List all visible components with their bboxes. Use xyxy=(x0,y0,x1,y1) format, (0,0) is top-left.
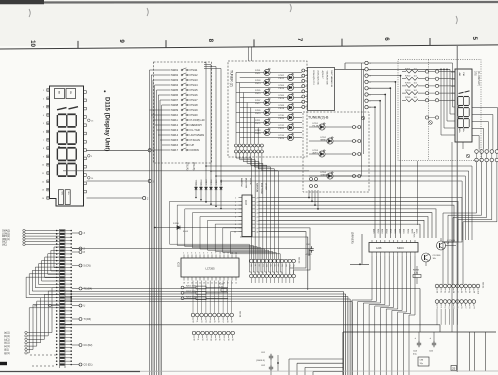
svg-text:R202 100k: R202 100k xyxy=(186,291,197,293)
resistor R201 100k xyxy=(181,286,184,289)
IC02 pins top xyxy=(183,255,185,259)
display digit 8 (second) xyxy=(57,114,76,127)
wire stubs from ruler to TUNER(2) xyxy=(248,47,250,62)
transistor Q7/02 xyxy=(422,253,431,262)
svg-text:SW15: SW15 xyxy=(171,138,179,142)
svg-text:(c)(1): (c)(1) xyxy=(4,339,10,341)
transistor Q7/01 xyxy=(437,241,446,250)
FL display outline xyxy=(455,69,472,142)
svg-text:KD03: KD03 xyxy=(206,179,208,185)
svg-text:AUTO/MAN: AUTO/MAN xyxy=(191,133,205,137)
display D115 top indicator boxes xyxy=(55,89,65,99)
svg-text:BA/BRA4: BA/BRA4 xyxy=(240,178,243,188)
TUNER(3)-B bottom pad wires to bus xyxy=(308,190,310,198)
IC U1 control block xyxy=(308,68,335,111)
svg-text:6: 6 xyxy=(370,95,371,97)
wire driver board L edge xyxy=(362,234,369,264)
IC03 pins right with bus to driver xyxy=(252,197,256,199)
FL display left pin verticals from top rows xyxy=(452,63,454,107)
svg-text:KD05: KD05 xyxy=(411,229,413,234)
svg-text:SW17: SW17 xyxy=(171,148,179,152)
svg-text:R201 100k: R201 100k xyxy=(186,286,197,288)
svg-text:(NC): (NC) xyxy=(2,242,7,244)
svg-text:K4: K4 xyxy=(209,321,211,323)
FL digit 1 xyxy=(459,92,464,93)
svg-text:7: 7 xyxy=(370,101,371,103)
svg-text:11: 11 xyxy=(223,253,225,255)
svg-text:S5: S5 xyxy=(214,339,216,341)
FL digit 8 b xyxy=(458,108,469,117)
svg-text:PS/14: PS/14 xyxy=(279,88,285,90)
svg-text:PS/16: PS/16 xyxy=(191,93,199,97)
svg-text:MEMORY: MEMORY xyxy=(191,123,203,127)
svg-text:SW09: SW09 xyxy=(171,108,179,112)
svg-text:K0: K0 xyxy=(191,321,193,323)
svg-text:PS/21: PS/21 xyxy=(255,123,261,125)
svg-text:D7/09: D7/09 xyxy=(255,110,261,112)
svg-text:MHz: MHz xyxy=(60,192,62,196)
row F exit wires xyxy=(436,309,438,325)
display digit 1 (first) xyxy=(57,108,67,110)
svg-text:K1: K1 xyxy=(196,321,198,323)
svg-text:K8: K8 xyxy=(226,321,228,323)
svg-text:R7/06: R7/06 xyxy=(413,232,415,238)
bus wire y325 xyxy=(65,324,440,326)
svg-text:TUNER(3)-B: TUNER(3)-B xyxy=(308,116,329,120)
svg-text:TUNER (2): TUNER (2) xyxy=(230,70,234,87)
svg-text:C1740S: C1740S xyxy=(447,240,455,242)
svg-text:KD05: KD05 xyxy=(183,231,189,233)
svg-text:AM: AM xyxy=(458,73,461,76)
screw mark driver xyxy=(429,121,433,125)
svg-text:IC02: IC02 xyxy=(177,262,179,268)
svg-text:P-15/P(1-20: P-15/P(1-20 xyxy=(191,118,206,122)
svg-text:PS/17: PS/17 xyxy=(191,98,199,102)
IC02 bottom pin wires to connector xyxy=(192,281,194,314)
svg-text:6: 6 xyxy=(203,253,204,255)
svg-text:E2: E2 xyxy=(444,291,446,293)
svg-text:KD05: KD05 xyxy=(389,229,391,234)
wire dotted-box stub down xyxy=(417,161,419,225)
svg-text:4(2%3.7: 4(2%3.7 xyxy=(321,71,323,80)
svg-text:14: 14 xyxy=(235,253,237,255)
svg-text:PS/13: PS/13 xyxy=(255,83,261,85)
svg-text:kHz: kHz xyxy=(462,129,464,133)
svg-text:1: 1 xyxy=(183,253,184,255)
svg-text:2: 2 xyxy=(235,201,236,203)
svg-text:5: 5 xyxy=(235,213,236,215)
svg-text:PS/15: PS/15 xyxy=(255,93,261,95)
wire nested corners bottom center xyxy=(289,358,343,360)
svg-text:SW03: SW03 xyxy=(171,78,179,82)
svg-text:17: 17 xyxy=(257,209,259,211)
svg-text:MULTI/SW: MULTI/SW xyxy=(245,178,247,188)
wire display pin to pad node 1 xyxy=(87,149,149,151)
switch block frame xyxy=(154,62,212,163)
svg-text:KD03: KD03 xyxy=(402,229,404,234)
svg-text:S2: S2 xyxy=(201,339,203,341)
svg-text:E10: E10 xyxy=(476,291,478,294)
svg-text:8: 8 xyxy=(211,253,212,255)
svg-text:MULTI/SW: MULTI/SW xyxy=(260,183,262,194)
svg-text:C/M: C/M xyxy=(420,360,424,362)
svg-text:13: 13 xyxy=(231,253,233,255)
svg-text:MLP YAMAGUW: MLP YAMAGUW xyxy=(330,71,333,88)
IC IC02 xyxy=(181,258,239,277)
svg-text:20: 20 xyxy=(257,198,259,200)
IC05 bottom wires to power block xyxy=(352,256,372,375)
svg-text:(TBL/B): (TBL/B) xyxy=(192,162,195,170)
connector CN/23 row B xyxy=(250,274,254,278)
svg-text:3: 3 xyxy=(235,205,236,207)
svg-text:K2: K2 xyxy=(200,321,202,323)
svg-text:STEREO: STEREO xyxy=(321,175,330,177)
wire switch commons to driver right xyxy=(206,166,472,240)
component crystal xyxy=(418,357,429,366)
svg-text:CG (D1): CG (D1) xyxy=(84,364,93,367)
svg-text:D7S: D7S xyxy=(474,71,477,76)
svg-text:SW11: SW11 xyxy=(171,118,178,122)
svg-text:K3: K3 xyxy=(204,321,206,323)
svg-text:Vol: Vol xyxy=(34,306,38,308)
svg-text:F2: F2 xyxy=(444,307,446,309)
svg-text:TI (D3): TI (D3) xyxy=(84,318,92,321)
svg-text:PS/11: PS/11 xyxy=(255,73,261,75)
svg-text:R7/08: R7/08 xyxy=(413,270,420,272)
wire display pin to pad node 2 xyxy=(87,197,143,199)
svg-text:SW10: SW10 xyxy=(171,113,179,117)
diode D7/60 xyxy=(154,227,242,229)
ruler line xyxy=(0,45,498,49)
svg-text:2: 2 xyxy=(187,253,188,255)
svg-text:D7/02: D7/02 xyxy=(279,75,285,77)
svg-text:PS/24: PS/24 xyxy=(279,138,285,140)
page number box 25 xyxy=(451,366,457,371)
svg-text:SW16: SW16 xyxy=(171,143,179,147)
svg-text:D7/07: D7/07 xyxy=(255,100,261,102)
TUNER(3)-B block frame xyxy=(303,112,369,192)
svg-text:SW14: SW14 xyxy=(171,133,179,137)
svg-text:S9: S9 xyxy=(231,339,233,341)
screw mark pad grid xyxy=(466,154,470,158)
display digit 8 (third) xyxy=(57,132,76,145)
svg-text:FL.TGR: FL.TGR xyxy=(191,128,200,132)
svg-text:SW04: SW04 xyxy=(171,83,179,87)
display driver dotted frame xyxy=(398,60,481,161)
FL display right pins fan down xyxy=(472,108,498,150)
svg-text:1248: 1248 xyxy=(376,247,382,250)
TUNER(2) bottom pads row2 xyxy=(235,150,238,153)
svg-text:PS/11: PS/11 xyxy=(191,68,198,72)
pad grid row2 xyxy=(475,158,479,162)
connector board box edge xyxy=(240,237,308,290)
svg-text:SW01: SW01 xyxy=(171,68,179,72)
FL display bottom pin xyxy=(462,142,464,149)
svg-text:25: 25 xyxy=(195,283,197,285)
svg-text:KD05: KD05 xyxy=(216,179,218,185)
svg-text:10: 10 xyxy=(234,232,236,234)
svg-text:PS/15: PS/15 xyxy=(191,88,199,92)
IC03 pins left with staircase to connector xyxy=(239,197,243,199)
TUNER(2) pads exit wires down xyxy=(236,153,251,259)
svg-text:64016: 64016 xyxy=(397,247,404,250)
wires TUNER(3)-B pads up to pad column xyxy=(360,63,363,176)
svg-text:D7/60: D7/60 xyxy=(173,223,180,225)
svg-text:SW12: SW12 xyxy=(171,123,179,127)
svg-text:CN/24: CN/24 xyxy=(239,311,241,318)
svg-text:PM: PM xyxy=(69,91,71,94)
display unit D115 outline xyxy=(50,86,84,206)
connector row F xyxy=(435,300,439,304)
wire ladder long y248 xyxy=(72,248,309,250)
capacitor C05 electrolytic xyxy=(432,341,436,347)
svg-text:12: 12 xyxy=(227,253,229,255)
svg-text:D7/08: D7/08 xyxy=(279,105,285,107)
TUNER(2) left bus verticals xyxy=(235,73,237,144)
svg-text:MHz: MHz xyxy=(458,129,460,133)
svg-text:SW06: SW06 xyxy=(171,93,179,97)
svg-text:(e)(1): (e)(1) xyxy=(4,346,10,348)
svg-text:23: 23 xyxy=(203,283,205,285)
capacitor C/05 xyxy=(309,246,313,252)
svg-text:4: 4 xyxy=(370,82,371,84)
svg-text:E3: E3 xyxy=(448,291,450,293)
svg-text:19: 19 xyxy=(257,201,259,203)
crosshatch horizontals xyxy=(368,62,452,64)
IC05 pins below xyxy=(371,252,373,256)
svg-text:PS/12: PS/12 xyxy=(279,78,285,80)
svg-text:KD04: KD04 xyxy=(385,229,387,234)
svg-text:7: 7 xyxy=(207,253,208,255)
connector CN/21 row E xyxy=(435,284,439,288)
svg-text:3: 3 xyxy=(370,76,371,78)
svg-text:25: 25 xyxy=(452,367,456,371)
svg-text:LGM(1): LGM(1) xyxy=(2,233,10,235)
svg-text:DOWN: DOWN xyxy=(191,148,199,152)
svg-text:14: 14 xyxy=(257,220,259,222)
svg-text:K5: K5 xyxy=(213,321,215,323)
svg-text:(FL DISPLAY): (FL DISPLAY) xyxy=(477,71,480,86)
TUNER(3)-B right pads xyxy=(353,126,356,129)
svg-text:PS/19: PS/19 xyxy=(191,108,199,112)
FL digit 8 c xyxy=(458,119,469,128)
svg-text:PS/18: PS/18 xyxy=(279,108,285,110)
svg-text:MEMO: MEMO xyxy=(321,140,328,142)
wire vertical x452 xyxy=(451,142,453,332)
connector CN/24 row C xyxy=(191,313,195,317)
svg-text:6: 6 xyxy=(235,217,236,219)
svg-text:28: 28 xyxy=(183,283,185,285)
svg-text:S7: S7 xyxy=(223,339,225,341)
svg-text:(DRIVER): (DRIVER) xyxy=(351,232,355,244)
svg-text:(b)(4): (b)(4) xyxy=(4,336,10,338)
bus wires y291-302 xyxy=(65,291,344,293)
svg-text:E8: E8 xyxy=(468,291,470,293)
svg-text:D7A-6(25.07.0: D7A-6(25.07.0 xyxy=(312,71,315,86)
TUNER(2) block frame xyxy=(228,61,307,157)
svg-text:PS/14: PS/14 xyxy=(191,83,199,87)
svg-text:1: 1 xyxy=(370,63,371,65)
ladder staircase lower xyxy=(27,288,59,333)
svg-text:(5/35-6(25.03): (5/35-6(25.03) xyxy=(317,71,319,85)
svg-text:CN/21: CN/21 xyxy=(482,282,484,289)
power block frame xyxy=(343,332,496,375)
svg-text:KD01: KD01 xyxy=(372,229,374,234)
svg-text:(TBL/A): (TBL/A) xyxy=(186,162,189,170)
svg-text:S8: S8 xyxy=(227,339,229,341)
svg-text:PS/17: PS/17 xyxy=(255,103,261,105)
svg-text:15: 15 xyxy=(257,217,259,219)
svg-text:KD01: KD01 xyxy=(394,229,396,234)
svg-text:13: 13 xyxy=(257,224,259,226)
svg-text:P.SCAN: P.SCAN xyxy=(191,138,200,142)
svg-text:S4: S4 xyxy=(210,339,212,341)
svg-text:(d)(1): (d)(1) xyxy=(4,343,10,345)
wire long y171 across page xyxy=(63,170,309,172)
svg-text:F8: F8 xyxy=(468,307,470,309)
svg-text:S3: S3 xyxy=(205,339,207,341)
ruler ticks xyxy=(77,41,79,49)
svg-text:24: 24 xyxy=(199,283,201,285)
svg-text:E9: E9 xyxy=(472,291,474,293)
svg-text:D7/10: D7/10 xyxy=(279,115,285,117)
svg-text:2: 2 xyxy=(370,69,371,71)
svg-text:S1: S1 xyxy=(197,339,199,341)
svg-text:D115 (Display Unit): D115 (Display Unit) xyxy=(104,97,110,151)
svg-text:CC (D2): CC (D2) xyxy=(84,344,93,347)
svg-text:F9: F9 xyxy=(472,307,474,309)
svg-text:Y&URUM 5VE: Y&URUM 5VE xyxy=(326,71,328,86)
svg-text:9: 9 xyxy=(215,253,216,255)
IC02 pins bottom xyxy=(183,277,185,281)
svg-text:PM: PM xyxy=(462,73,464,76)
screw mark TUNER(3)-B xyxy=(361,116,365,120)
svg-text:5 (CN): 5 (CN) xyxy=(84,265,91,268)
svg-text:(NC): (NC) xyxy=(2,245,7,247)
svg-text:D7/06: D7/06 xyxy=(279,95,285,97)
svg-text:(a)(1): (a)(1) xyxy=(4,333,10,335)
svg-text:CN/23: CN/23 xyxy=(298,257,300,264)
display right pad circles xyxy=(88,119,91,122)
svg-text:10: 10 xyxy=(219,253,221,255)
wire cap join xyxy=(270,371,272,375)
svg-text:KD04: KD04 xyxy=(211,179,213,185)
svg-text:8: 8 xyxy=(207,39,214,43)
svg-text:LEVER: LEVER xyxy=(265,183,267,191)
svg-text:AM: AM xyxy=(58,91,61,94)
svg-text:D7/14: D7/14 xyxy=(279,135,285,137)
svg-text:D7/12: D7/12 xyxy=(279,125,285,127)
svg-text:SW05: SW05 xyxy=(171,88,179,92)
svg-text:F6: F6 xyxy=(460,307,462,309)
driver lower pads pair xyxy=(425,116,428,119)
svg-text:kHz: kHz xyxy=(67,192,69,195)
svg-text:S0: S0 xyxy=(192,339,194,341)
ladder staircase upper xyxy=(54,247,60,268)
driver pads col1 xyxy=(425,70,428,73)
pad column mid xyxy=(365,61,368,64)
page bottom edge line xyxy=(0,370,498,372)
svg-text:1: 1 xyxy=(235,198,236,200)
svg-text:SW07: SW07 xyxy=(171,98,179,102)
svg-text:22: 22 xyxy=(207,283,209,285)
connector CN/23 row A xyxy=(250,259,254,263)
TUNER(2) bottom pads row1 xyxy=(235,144,238,147)
svg-text:10: 10 xyxy=(29,40,36,47)
svg-text:TC (D4): TC (D4) xyxy=(84,288,93,291)
display pin stubs right xyxy=(84,91,87,94)
svg-text:D7/03: D7/03 xyxy=(255,80,261,82)
svg-text:PS/22: PS/22 xyxy=(279,128,285,130)
page top edge xyxy=(0,1,498,4)
wire bundle switch block to bottom edge xyxy=(149,163,151,375)
svg-text:10k: 10k xyxy=(433,258,436,260)
svg-text:8: 8 xyxy=(370,107,371,109)
FL display left pins upper xyxy=(451,71,455,73)
wire switch common verticals xyxy=(204,63,206,184)
svg-text:PS/20: PS/20 xyxy=(191,113,199,117)
svg-text:U: U xyxy=(84,305,86,308)
binding marks xyxy=(29,9,30,17)
svg-text:E6: E6 xyxy=(460,291,462,293)
svg-text:D7/05: D7/05 xyxy=(255,90,261,92)
svg-text:11: 11 xyxy=(257,232,259,234)
display D115 bottom indicator boxes xyxy=(58,190,63,205)
svg-text:SW02: SW02 xyxy=(171,73,179,77)
svg-text:PS/20: PS/20 xyxy=(279,118,285,120)
svg-text:KD02: KD02 xyxy=(201,179,203,185)
IC IC03 xyxy=(242,195,252,237)
svg-text:UP: UP xyxy=(191,143,195,147)
pad grid row1 xyxy=(475,150,479,154)
svg-text:MPX(1): MPX(1) xyxy=(2,236,10,238)
svg-text:9: 9 xyxy=(235,228,236,230)
wire switch top edge hooks xyxy=(196,62,204,64)
svg-text:OMA(2): OMA(2) xyxy=(2,230,10,233)
svg-text:SW13: SW13 xyxy=(171,128,179,132)
display pin stubs left xyxy=(47,89,50,91)
ladder right pads xyxy=(72,232,79,234)
wire long vertical x457 xyxy=(456,46,458,372)
IC U1 trunk wires xyxy=(335,68,365,70)
svg-text:F3: F3 xyxy=(448,307,450,309)
svg-text:16: 16 xyxy=(257,213,259,215)
FL digit 8 a xyxy=(458,97,469,106)
svg-text:LC7265: LC7265 xyxy=(205,267,215,271)
ladder bus rails xyxy=(58,229,60,368)
svg-text:E1: E1 xyxy=(440,291,442,293)
svg-text:4: 4 xyxy=(235,209,236,211)
svg-text:PS/13: PS/13 xyxy=(191,78,199,82)
svg-text:D7/04: D7/04 xyxy=(279,85,285,87)
svg-text:F1: F1 xyxy=(440,307,442,309)
svg-text:PS/18: PS/18 xyxy=(191,103,199,107)
svg-text:E7: E7 xyxy=(464,291,466,293)
IC05 pin labels above xyxy=(371,240,373,243)
svg-text:S6: S6 xyxy=(218,339,220,341)
TUNER(3)-B bottom pads xyxy=(310,178,313,181)
wires bottom right verticals xyxy=(469,332,471,371)
svg-text:KD03: KD03 xyxy=(381,229,383,234)
svg-text:KD04: KD04 xyxy=(406,229,408,234)
crosshatch vertical fan to driver IC xyxy=(400,76,402,238)
svg-text:7: 7 xyxy=(235,220,236,222)
svg-text:12: 12 xyxy=(257,228,259,230)
wire dashes bottom left xyxy=(32,365,56,367)
svg-text:BA/BRA4: BA/BRA4 xyxy=(256,183,259,193)
svg-text:D7/01: D7/01 xyxy=(255,70,261,72)
capacitor C02 xyxy=(269,365,273,371)
